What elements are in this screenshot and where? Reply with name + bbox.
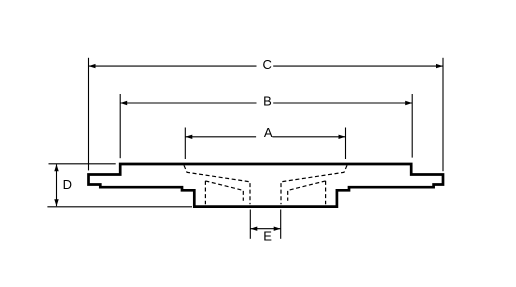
svg-text:D: D	[63, 177, 72, 192]
extension line C left	[88, 58, 90, 171]
extension line D top	[49, 163, 116, 165]
hidden line left web	[205, 181, 243, 201]
hidden line right hub wall	[325, 181, 327, 204]
extension line A left	[184, 128, 186, 160]
dimension C line	[89, 64, 444, 68]
extension line B left	[119, 94, 121, 158]
hidden line left hub wall	[204, 181, 206, 204]
extension line A right	[345, 128, 347, 160]
svg-text:C: C	[263, 57, 272, 72]
rotor cross-section outline	[89, 164, 444, 207]
extension line D bottom	[47, 206, 192, 208]
hidden line right inner cone	[281, 165, 347, 204]
extension line C right	[442, 58, 444, 171]
svg-text:A: A	[264, 125, 273, 140]
extension line E left	[249, 210, 251, 239]
svg-text:B: B	[263, 94, 272, 109]
dimension A line	[185, 135, 345, 139]
hidden line right web	[288, 181, 326, 201]
dimension B line	[120, 101, 412, 105]
hidden line left inner cone	[184, 165, 250, 204]
extension line E right	[280, 210, 282, 239]
extension line B right	[411, 94, 413, 158]
dimension E line	[250, 227, 280, 231]
svg-text:E: E	[263, 229, 272, 244]
dimension D line	[54, 164, 58, 206]
